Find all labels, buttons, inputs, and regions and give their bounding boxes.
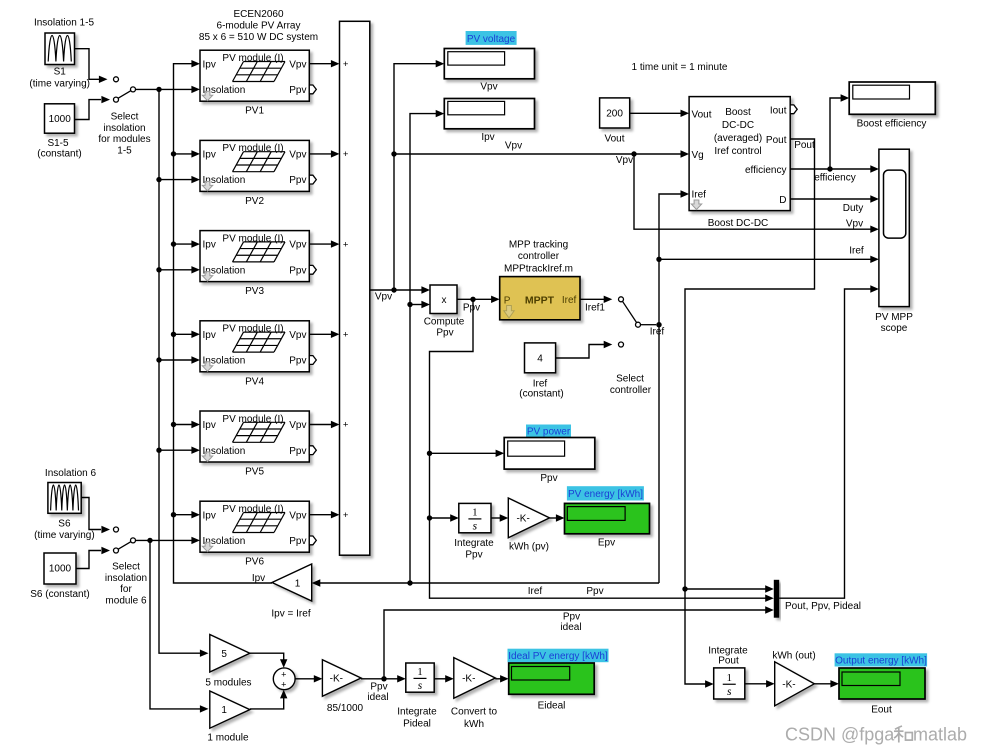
source block S1 sine (time varying) bbox=[45, 33, 75, 65]
label S6 bbox=[34, 519, 95, 542]
svg-text:(time varying): (time varying) bbox=[29, 79, 90, 90]
svg-text:Select: Select bbox=[112, 562, 140, 573]
svg-text:Iout: Iout bbox=[770, 106, 787, 117]
display block Epv (green) bbox=[565, 503, 650, 533]
svg-text:Vout: Vout bbox=[692, 109, 712, 120]
manual switch Select controller bbox=[619, 297, 657, 347]
svg-text:1: 1 bbox=[417, 666, 423, 678]
svg-text:kWh (pv): kWh (pv) bbox=[509, 542, 549, 553]
wire Convert gain to Eideal display bbox=[495, 675, 508, 682]
wire PV5 Vpv to series sum bbox=[309, 421, 339, 428]
svg-text:Iref: Iref bbox=[692, 190, 707, 201]
svg-text:Ppv: Ppv bbox=[289, 356, 306, 367]
sum block circle (insolation sum) bbox=[273, 668, 295, 690]
svg-text:ideal: ideal bbox=[367, 692, 388, 703]
svg-text:s: s bbox=[727, 686, 732, 698]
svg-text:Vpv: Vpv bbox=[505, 140, 522, 151]
svg-text:Vpv: Vpv bbox=[480, 82, 497, 93]
annotation Insolation 6 label bbox=[45, 468, 97, 479]
wire S6 to switch2 input 1 bbox=[81, 498, 110, 534]
svg-text:Select: Select bbox=[616, 374, 644, 385]
display block Eout (green) bbox=[839, 668, 925, 699]
annotation PV energy kWh bbox=[567, 486, 644, 500]
wire Boost efficiency to scope input 1 and Boost efficiency display bbox=[790, 94, 879, 183]
svg-text:+: + bbox=[343, 239, 349, 250]
wire insolation 6 net (switch2 to PV6 and 1-module gain) bbox=[136, 537, 209, 713]
wire Compute Ppv output to MPPT bbox=[457, 296, 500, 314]
PV module block PV3 bbox=[200, 231, 316, 282]
svg-text:+: + bbox=[281, 679, 286, 689]
display block Eideal (green) bbox=[509, 663, 595, 694]
svg-text:1-5: 1-5 bbox=[117, 145, 132, 156]
wire Boost D to scope input 2 bbox=[790, 195, 879, 214]
svg-text:CSDN @fpga: CSDN @fpga bbox=[785, 725, 895, 745]
svg-text:insolation: insolation bbox=[105, 573, 147, 584]
svg-text:Ppv: Ppv bbox=[289, 85, 306, 96]
wire Ipv net (Ipv=Iref gain output to all PV Ipv inputs) bbox=[171, 60, 272, 584]
svg-text:Iref: Iref bbox=[528, 586, 543, 597]
wire PV1 Vpv to series sum bbox=[309, 60, 339, 67]
label 5 modules bbox=[205, 677, 251, 688]
svg-text:Ipv: Ipv bbox=[252, 573, 265, 584]
wire sum circle to 85/1000 gain bbox=[295, 675, 322, 682]
svg-text:Vpv: Vpv bbox=[289, 330, 306, 341]
svg-text:efficiency: efficiency bbox=[814, 173, 856, 184]
label Select insolation for module 6 bbox=[105, 562, 147, 607]
manual switch Select insolation for modules 1-5 bbox=[114, 77, 136, 102]
svg-text:85 x 6 = 510 W DC system: 85 x 6 = 510 W DC system bbox=[199, 32, 318, 43]
label PV6 bbox=[245, 557, 264, 568]
wire 5 modules gain to sum circle bbox=[250, 653, 288, 668]
svg-text:matlab: matlab bbox=[913, 725, 967, 745]
svg-text:Iref: Iref bbox=[650, 327, 665, 338]
svg-text:kWh: kWh bbox=[464, 719, 484, 730]
svg-text:(averaged): (averaged) bbox=[714, 133, 762, 144]
svg-text:x: x bbox=[442, 295, 447, 306]
svg-text:PV3: PV3 bbox=[245, 286, 264, 297]
svg-text:Vpv: Vpv bbox=[289, 510, 306, 521]
svg-text:Boost: Boost bbox=[725, 107, 751, 118]
label Convert to kWh bbox=[451, 706, 498, 730]
wire MPPT Iref1 to controller switch bbox=[580, 296, 612, 314]
svg-text:Epv: Epv bbox=[598, 538, 615, 549]
source block S6 sine (time varying) bbox=[48, 483, 81, 514]
MATLAB function block MPPT bbox=[500, 277, 580, 320]
label S6 (constant) bbox=[30, 589, 89, 600]
manual switch Select insolation for module 6 bbox=[114, 527, 136, 553]
svg-text:controller: controller bbox=[518, 251, 560, 262]
label PV1 bbox=[245, 106, 264, 117]
svg-text:Vpv: Vpv bbox=[289, 150, 306, 161]
wire insolation 1-5 net (switch1 to PV1-PV5 and 5-modules gain) bbox=[136, 86, 209, 657]
gain block kWh (pv) bbox=[508, 498, 549, 538]
svg-text:Pout: Pout bbox=[718, 656, 739, 667]
svg-text:Ppv: Ppv bbox=[465, 549, 482, 560]
label Boost DC-DC bbox=[708, 218, 769, 229]
svg-text:Ppv: Ppv bbox=[563, 612, 580, 623]
wire kWh out gain to Eout display bbox=[814, 680, 839, 687]
wire Vpv branch to scope input 3 bbox=[634, 154, 879, 233]
svg-text:Ppv: Ppv bbox=[436, 328, 453, 339]
svg-text:PV module (I): PV module (I) bbox=[222, 504, 283, 515]
label Pout, Ppv, Pideal bbox=[785, 601, 861, 612]
constant block Iref 4 bbox=[525, 343, 556, 373]
svg-text:Pout, Ppv, Pideal: Pout, Ppv, Pideal bbox=[785, 601, 861, 612]
svg-text:200: 200 bbox=[606, 109, 623, 120]
display block Ppv bbox=[504, 438, 595, 470]
svg-text:Vpv: Vpv bbox=[289, 420, 306, 431]
svg-text:Iref: Iref bbox=[849, 246, 864, 257]
svg-text:PV power: PV power bbox=[527, 427, 571, 438]
wire Boost Pout to mux and Integrate Pout bbox=[682, 139, 815, 688]
svg-text:MPP tracking: MPP tracking bbox=[509, 239, 568, 250]
svg-text:Boost DC-DC: Boost DC-DC bbox=[708, 218, 769, 229]
integrator block Integrate Pideal bbox=[406, 663, 434, 692]
svg-text:1000: 1000 bbox=[49, 564, 72, 575]
label Compute Ppv bbox=[424, 317, 465, 339]
label PV4 bbox=[245, 376, 264, 387]
svg-text:Convert to: Convert to bbox=[451, 706, 498, 717]
svg-text:PV1: PV1 bbox=[245, 106, 264, 117]
svg-text:85/1000: 85/1000 bbox=[327, 703, 364, 714]
svg-text:PV6: PV6 bbox=[245, 557, 264, 568]
svg-text:Integrate: Integrate bbox=[454, 538, 494, 549]
watermark CSDN @fpga(he)matlab bbox=[785, 725, 967, 745]
label Integrate Ppv bbox=[454, 538, 494, 561]
PV module block PV5 bbox=[200, 411, 316, 462]
svg-text:insolation: insolation bbox=[103, 123, 145, 134]
wire PV4 Vpv to series sum bbox=[309, 331, 339, 338]
svg-text:Pout: Pout bbox=[766, 135, 787, 146]
wire Iref net (switch to Boost Iref, scope input 4, Ipv=Iref gain) bbox=[312, 190, 879, 597]
svg-text:+: + bbox=[343, 510, 349, 521]
annotation Insolation 1-5 label bbox=[34, 18, 94, 29]
product block Compute Ppv bbox=[430, 285, 457, 314]
label Eideal bbox=[538, 701, 566, 712]
svg-text:Insolation 6: Insolation 6 bbox=[45, 468, 97, 479]
svg-text:S1-5: S1-5 bbox=[47, 138, 69, 149]
label S1-5 (constant) bbox=[37, 138, 81, 160]
svg-text:Vpv: Vpv bbox=[289, 59, 306, 70]
display block Ipv bbox=[444, 99, 534, 129]
label Ppv display bbox=[540, 473, 557, 484]
svg-text:Vpv: Vpv bbox=[289, 240, 306, 251]
gain block 1 module bbox=[210, 691, 250, 728]
svg-text:Ppv: Ppv bbox=[540, 473, 557, 484]
svg-text:-K-: -K- bbox=[462, 674, 475, 685]
svg-text:efficiency: efficiency bbox=[745, 165, 787, 176]
svg-text:+: + bbox=[343, 330, 349, 341]
svg-text:4: 4 bbox=[537, 354, 543, 365]
svg-text:Insolation 1-5: Insolation 1-5 bbox=[34, 18, 94, 29]
label Epv bbox=[598, 538, 615, 549]
svg-text:PV module (I): PV module (I) bbox=[222, 414, 283, 425]
PV module block PV2 bbox=[200, 140, 316, 191]
gain block 5 modules bbox=[210, 635, 250, 673]
label PV2 bbox=[245, 196, 264, 207]
svg-text:for: for bbox=[120, 584, 132, 595]
svg-text:S6: S6 bbox=[58, 519, 71, 530]
wire Integrate Pout to kWh out gain bbox=[745, 680, 775, 687]
PV module block PV4 bbox=[200, 321, 316, 372]
svg-text:D: D bbox=[779, 195, 786, 206]
annotation Output energy kWh bbox=[835, 653, 928, 666]
svg-text:for modules: for modules bbox=[98, 134, 150, 145]
integrator block Integrate Ppv bbox=[459, 503, 491, 532]
label PV MPP scope bbox=[875, 312, 913, 334]
svg-text:P: P bbox=[504, 295, 511, 306]
svg-text:PV energy [kWh]: PV energy [kWh] bbox=[568, 489, 643, 500]
label Boost efficiency bbox=[857, 119, 927, 130]
svg-text:S6 (constant): S6 (constant) bbox=[30, 589, 89, 600]
label Ipv display bbox=[481, 132, 494, 143]
svg-text:PV module (I): PV module (I) bbox=[222, 233, 283, 244]
svg-text:+: + bbox=[343, 420, 349, 431]
label S1 bbox=[29, 67, 90, 90]
wire Vpv tap to Vpv display bbox=[394, 60, 444, 290]
label 85/1000 bbox=[327, 703, 364, 714]
svg-text:Vpv: Vpv bbox=[846, 219, 863, 230]
wire Integrate Ppv to kWh gain bbox=[491, 514, 508, 521]
PV module block PV1 bbox=[200, 50, 316, 101]
svg-text:Output energy [kWh]: Output energy [kWh] bbox=[835, 656, 927, 667]
wire 1 module gain to sum circle bbox=[250, 690, 288, 709]
svg-text:Vpv: Vpv bbox=[375, 292, 392, 303]
svg-text:Boost efficiency: Boost efficiency bbox=[857, 119, 927, 130]
svg-text:scope: scope bbox=[881, 323, 908, 334]
svg-text:(constant): (constant) bbox=[37, 149, 81, 160]
svg-text:Ipv: Ipv bbox=[203, 420, 216, 431]
svg-text:6-module PV Array: 6-module PV Array bbox=[217, 21, 301, 32]
wire S1 to switch1 input 1 bbox=[75, 49, 108, 83]
svg-text:Ppv: Ppv bbox=[289, 265, 306, 276]
constant block Vout 200 bbox=[600, 98, 630, 128]
wire kWh gain to Epv display bbox=[550, 514, 565, 521]
wire Ipv tap (Iref wire to Ipv display and Compute Ppv input 2) bbox=[407, 110, 444, 586]
svg-text:1: 1 bbox=[295, 578, 301, 589]
svg-text:Select: Select bbox=[111, 112, 139, 123]
annotation title ECEN2060 bbox=[199, 9, 318, 43]
wire PV3 Vpv to series sum bbox=[309, 240, 339, 247]
svg-text:+: + bbox=[281, 670, 286, 680]
svg-text:Ppv: Ppv bbox=[370, 682, 387, 693]
wire sum output Vpv to Compute Ppv input 1 bbox=[370, 286, 430, 302]
svg-text:Ppv: Ppv bbox=[289, 446, 306, 457]
svg-text:MPPtrackIref.m: MPPtrackIref.m bbox=[504, 264, 573, 275]
svg-text:5: 5 bbox=[221, 649, 227, 660]
svg-text:+: + bbox=[343, 59, 349, 70]
svg-text:1 module: 1 module bbox=[207, 732, 249, 743]
svg-text:Ipv: Ipv bbox=[203, 330, 216, 341]
annotation MPP tracking controller bbox=[504, 239, 573, 274]
svg-text:PV module (I): PV module (I) bbox=[222, 53, 283, 64]
PV module block PV6 bbox=[200, 501, 316, 552]
svg-text:controller: controller bbox=[610, 385, 652, 396]
svg-text:S1: S1 bbox=[54, 67, 67, 78]
svg-text:Ipv: Ipv bbox=[203, 240, 216, 251]
svg-text:(constant): (constant) bbox=[519, 389, 563, 400]
label Integrate Pideal bbox=[397, 706, 437, 729]
wire Vout to Boost bbox=[630, 110, 689, 117]
svg-text:s: s bbox=[418, 680, 423, 692]
svg-text:Integrate: Integrate bbox=[397, 706, 437, 717]
svg-text:+: + bbox=[343, 149, 349, 160]
annotation time unit bbox=[632, 62, 728, 73]
svg-text:Iref1: Iref1 bbox=[585, 303, 605, 314]
svg-text:PV2: PV2 bbox=[245, 196, 264, 207]
svg-text:-K-: -K- bbox=[330, 674, 343, 685]
mux block Pout Ppv Pideal bbox=[774, 580, 779, 618]
svg-text:1: 1 bbox=[727, 672, 733, 684]
svg-text:PV5: PV5 bbox=[245, 467, 264, 478]
svg-text:Ipv: Ipv bbox=[481, 132, 494, 143]
wire mux output to scope input 5 bbox=[779, 285, 879, 598]
svg-text:Compute: Compute bbox=[424, 317, 465, 328]
svg-text:Vg: Vg bbox=[692, 150, 704, 161]
svg-text:PV module (I): PV module (I) bbox=[222, 324, 283, 335]
svg-text:PV voltage: PV voltage bbox=[467, 34, 516, 45]
svg-text:Duty: Duty bbox=[843, 203, 864, 214]
svg-text:PV MPP: PV MPP bbox=[875, 312, 913, 323]
svg-text:Ppv: Ppv bbox=[586, 586, 603, 597]
label Iref node bbox=[650, 327, 665, 338]
svg-text:ideal: ideal bbox=[560, 622, 581, 633]
svg-text:Pout: Pout bbox=[794, 140, 815, 151]
annotation PV power bbox=[526, 425, 571, 438]
svg-text:MPPT: MPPT bbox=[525, 295, 555, 307]
svg-text:s: s bbox=[473, 521, 478, 533]
svg-text:Ideal PV energy [kWh]: Ideal PV energy [kWh] bbox=[508, 651, 608, 662]
wire PV6 Vpv to series sum bbox=[309, 511, 339, 518]
wire S1-5 to switch1 input 2 bbox=[75, 96, 111, 120]
gain block Ipv = Iref (left pointing) bbox=[272, 564, 312, 601]
label Eout bbox=[871, 705, 892, 716]
sum block series string (adds 6 module voltages) bbox=[340, 21, 370, 555]
label kWh (out) bbox=[772, 651, 815, 662]
svg-text:Vout: Vout bbox=[604, 134, 624, 145]
wire Ppv net (to mux, Ppv display, Integrate Ppv) bbox=[427, 299, 774, 602]
scope block PV MPP scope bbox=[879, 149, 909, 306]
constant block S1-5 1000 bbox=[45, 104, 75, 133]
gain block Convert to kWh bbox=[454, 658, 496, 699]
svg-text:1: 1 bbox=[472, 507, 478, 519]
svg-text:Ipv: Ipv bbox=[203, 150, 216, 161]
wire Vpv to Boost Vg input bbox=[391, 140, 689, 166]
svg-text:Ipv: Ipv bbox=[203, 510, 216, 521]
label Select insolation for modules 1-5 bbox=[98, 112, 150, 157]
label Select controller bbox=[610, 374, 652, 397]
label PV5 bbox=[245, 467, 264, 478]
label Vout bbox=[604, 134, 624, 145]
label kWh (pv) bbox=[509, 542, 549, 553]
gain block 85/1000 bbox=[322, 660, 361, 697]
svg-text:(time varying): (time varying) bbox=[34, 530, 95, 541]
svg-text:PV4: PV4 bbox=[245, 376, 264, 387]
svg-text:Eideal: Eideal bbox=[538, 701, 566, 712]
constant block S6 1000 bbox=[44, 553, 76, 584]
svg-text:1: 1 bbox=[221, 705, 227, 716]
svg-text:1000: 1000 bbox=[49, 114, 72, 125]
svg-text:module 6: module 6 bbox=[105, 595, 147, 606]
label Integrate Pout bbox=[708, 646, 748, 667]
integrator block Integrate Pout bbox=[714, 668, 745, 699]
annotation Ideal PV energy kWh bbox=[508, 649, 609, 663]
wire S6 constant to switch2 input 2 bbox=[76, 547, 110, 569]
label Ipv = Iref bbox=[271, 608, 310, 619]
svg-text:PV module (I): PV module (I) bbox=[222, 143, 283, 154]
label PV3 bbox=[245, 286, 264, 297]
wire PV2 Vpv to series sum bbox=[309, 150, 339, 157]
svg-text:Iref control: Iref control bbox=[714, 146, 761, 157]
svg-text:ECEN2060: ECEN2060 bbox=[233, 9, 283, 20]
wire Iref constant to controller switch input 2 bbox=[556, 341, 613, 358]
svg-text:Ppv: Ppv bbox=[289, 536, 306, 547]
svg-text:Ipv = Iref: Ipv = Iref bbox=[271, 608, 310, 619]
svg-text:Iref: Iref bbox=[562, 295, 577, 306]
svg-text:Vpv: Vpv bbox=[616, 155, 633, 166]
gain block kWh (out) bbox=[775, 662, 815, 706]
svg-text:5 modules: 5 modules bbox=[205, 677, 251, 688]
svg-text:DC-DC: DC-DC bbox=[722, 120, 754, 131]
svg-text:-K-: -K- bbox=[516, 513, 529, 524]
svg-text:Ppv: Ppv bbox=[463, 303, 480, 314]
svg-text:Ppv: Ppv bbox=[289, 175, 306, 186]
subsystem block Boost DC-DC bbox=[689, 97, 797, 211]
svg-text:1 time unit = 1 minute: 1 time unit = 1 minute bbox=[632, 62, 728, 73]
svg-text:-K-: -K- bbox=[782, 679, 795, 690]
annotation PV voltage bbox=[466, 31, 517, 45]
label Vpv display bbox=[480, 82, 497, 93]
svg-text:Pideal: Pideal bbox=[403, 718, 431, 729]
display block Vpv bbox=[444, 49, 534, 79]
label 1 module bbox=[207, 732, 249, 743]
svg-text:Eout: Eout bbox=[871, 705, 892, 716]
label Iref (constant) bbox=[519, 379, 563, 400]
svg-text:Ipv: Ipv bbox=[203, 59, 216, 70]
wire 85/1000 to Integrate Pideal and mux (Ppv ideal net) bbox=[361, 606, 774, 703]
wire Integrate Pideal to Convert gain bbox=[434, 675, 454, 682]
display block Boost efficiency bbox=[849, 82, 935, 114]
svg-text:kWh (out): kWh (out) bbox=[772, 651, 815, 662]
label Ppv ideal (mux wire) bbox=[560, 612, 581, 634]
